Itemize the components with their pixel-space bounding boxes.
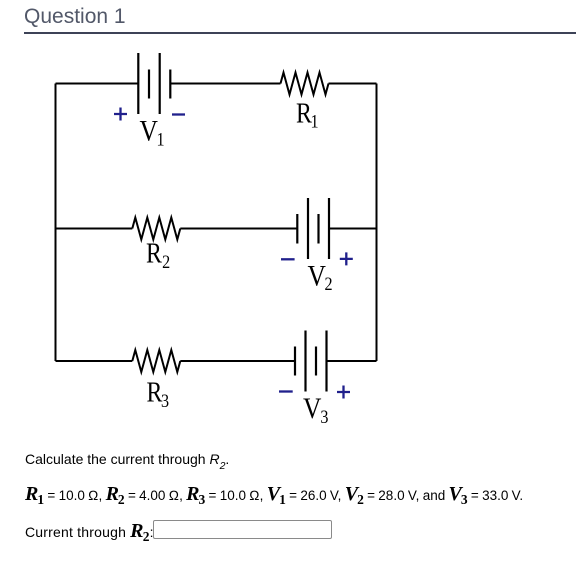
svg-text:3: 3 xyxy=(320,406,328,428)
svg-text:2: 2 xyxy=(325,273,333,295)
svg-text:1: 1 xyxy=(310,110,318,132)
svg-text:1: 1 xyxy=(157,128,165,150)
svg-text:V: V xyxy=(140,114,158,147)
svg-text:R: R xyxy=(146,238,162,269)
svg-text:V: V xyxy=(308,260,326,293)
svg-text:3: 3 xyxy=(161,390,169,412)
svg-text:V: V xyxy=(303,392,321,425)
svg-text:2: 2 xyxy=(162,251,170,273)
